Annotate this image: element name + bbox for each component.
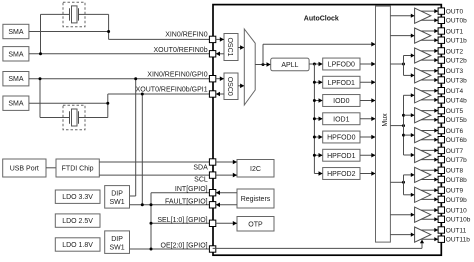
svg-text:SW1: SW1 (110, 244, 125, 251)
svg-text:XIN0/REFIN0/GPI0: XIN0/REFIN0/GPI0 (147, 72, 207, 79)
svg-text:FAULT[GPIO]: FAULT[GPIO] (165, 198, 208, 205)
svg-text:OUT4b: OUT4b (446, 97, 467, 104)
svg-text:OUT5: OUT5 (446, 108, 464, 115)
svg-text:HPFOD2: HPFOD2 (327, 171, 356, 178)
svg-text:OUT2b: OUT2b (446, 58, 467, 65)
svg-text:OTP: OTP (248, 222, 263, 229)
svg-text:SEL[1:0] [GPIO]: SEL[1:0] [GPIO] (157, 217, 207, 224)
svg-text:XIN0/REFIN0: XIN0/REFIN0 (165, 32, 208, 39)
svg-text:LDO 2.5V: LDO 2.5V (62, 218, 93, 225)
svg-text:OUT3b: OUT3b (446, 77, 467, 84)
svg-text:OUT11b: OUT11b (446, 237, 470, 244)
svg-text:IOD1: IOD1 (333, 116, 349, 123)
svg-text:OUT0: OUT0 (446, 9, 464, 16)
svg-text:OUT11: OUT11 (446, 227, 467, 234)
svg-text:SMA: SMA (8, 29, 24, 36)
svg-text:LPFOD0: LPFOD0 (328, 62, 355, 69)
svg-text:OE[2:0] [GPIO]: OE[2:0] [GPIO] (161, 243, 208, 250)
svg-text:OUT7b: OUT7b (446, 157, 467, 164)
svg-text:OUT2: OUT2 (446, 48, 464, 55)
svg-text:INT[GPIO]: INT[GPIO] (175, 186, 208, 193)
svg-text:AutoClock: AutoClock (304, 16, 339, 23)
svg-text:OUT8b: OUT8b (446, 177, 467, 184)
svg-text:I2C: I2C (250, 166, 261, 173)
svg-text:SCL: SCL (194, 177, 208, 184)
svg-text:OUT4: OUT4 (446, 88, 464, 95)
svg-text:Registers: Registers (241, 196, 271, 203)
svg-text:Mux: Mux (382, 113, 389, 127)
svg-text:SW1: SW1 (110, 199, 125, 206)
svg-text:OSC0: OSC0 (226, 77, 233, 96)
svg-text:FTDI Chip: FTDI Chip (62, 166, 94, 173)
svg-text:OUT10b: OUT10b (446, 217, 471, 224)
svg-text:DIP: DIP (111, 191, 123, 198)
svg-text:APLL: APLL (281, 62, 298, 69)
svg-text:SMA: SMA (8, 51, 24, 58)
svg-text:OUT3: OUT3 (446, 68, 464, 75)
svg-text:OUT9b: OUT9b (446, 197, 467, 204)
svg-text:USB Port: USB Port (10, 166, 39, 173)
svg-text:OUT6b: OUT6b (446, 137, 467, 144)
svg-text:OUT10: OUT10 (446, 208, 467, 215)
svg-text:XOUT0/REFIN0b/GPI1: XOUT0/REFIN0b/GPI1 (136, 87, 208, 94)
svg-text:SDA: SDA (193, 165, 208, 172)
svg-text:OUT1b: OUT1b (446, 38, 467, 45)
svg-text:OUT6: OUT6 (446, 128, 464, 135)
svg-text:SMA: SMA (8, 76, 24, 83)
svg-text:OUT0b: OUT0b (446, 18, 467, 25)
svg-text:LDO 1.8V: LDO 1.8V (62, 242, 93, 249)
svg-text:SMA: SMA (8, 101, 24, 108)
svg-text:OUT8: OUT8 (446, 168, 464, 175)
svg-text:LDO 3.3V: LDO 3.3V (62, 194, 93, 201)
svg-text:DIP: DIP (111, 236, 123, 243)
svg-text:OUT9: OUT9 (446, 188, 464, 195)
svg-text:IOD0: IOD0 (333, 98, 349, 105)
svg-text:OUT5b: OUT5b (446, 117, 467, 124)
svg-text:HPFOD1: HPFOD1 (327, 153, 356, 160)
svg-text:OUT1: OUT1 (446, 28, 464, 35)
svg-text:HPFOD0: HPFOD0 (327, 135, 356, 142)
svg-text:LPFOD1: LPFOD1 (328, 80, 355, 87)
svg-text:XOUT0/REFIN0b: XOUT0/REFIN0b (154, 47, 208, 54)
svg-text:OUT7: OUT7 (446, 148, 464, 155)
svg-text:OSC1: OSC1 (226, 37, 233, 56)
